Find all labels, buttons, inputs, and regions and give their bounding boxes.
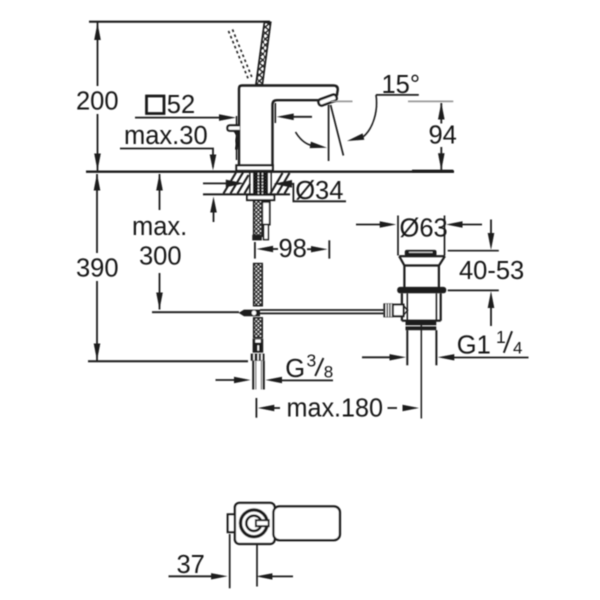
leader underline of dim 37: [169, 575, 213, 577]
tailpipe coupling band 2 (dark): [406, 326, 437, 330]
svg-text:300: 300: [139, 243, 182, 271]
leader line of dim 52 right: [292, 116, 312, 118]
dimension 200 vertical line lower segment: [97, 114, 99, 172]
drain centerline: [420, 321, 422, 419]
leader line of dim 52 left: [135, 117, 222, 119]
svg-text:max.: max.: [132, 213, 187, 241]
arrowhead left of G1 1/4: [438, 354, 455, 360]
left extension line of dim 52: [236, 116, 238, 160]
svg-text:390: 390: [76, 255, 119, 283]
top view: pop-up knob tab: [228, 514, 237, 532]
svg-text:94: 94: [429, 122, 457, 150]
deck hatching left patch: [224, 173, 251, 194]
lever phantom tilted position second stroke: [233, 30, 253, 78]
svg-text:Ø63: Ø63: [400, 215, 448, 243]
counter extension line under dim 94: [412, 170, 453, 172]
leader of G1 1/4 left: [362, 356, 392, 358]
svg-text:G1: G1: [457, 332, 491, 360]
ferrule white slot: [257, 345, 259, 350]
dimension max.300 vertical line upper segment: [159, 174, 161, 210]
arrowhead down of dim 200: [94, 154, 101, 171]
leader underline of G3/8 label: [281, 379, 334, 381]
knob white ridge 3: [391, 304, 392, 317]
dimension 390 vertical line lower segment: [96, 281, 98, 361]
hose ferrule (dark): [253, 339, 264, 353]
G3/8 tube inner line 1: [255, 361, 257, 390]
top view: faucet body square: [235, 503, 275, 544]
deck bottom line: [203, 193, 290, 195]
base plate under faucet body: [236, 165, 272, 170]
tailpipe left wall: [406, 330, 408, 365]
drain plug black lip: [405, 250, 437, 256]
pop-up rod squiggle going down: [236, 132, 238, 150]
arrowhead of 15 deg arc: [347, 133, 364, 141]
arrowhead up of dim 94: [438, 103, 445, 120]
aerator at spout end (15 deg): [318, 94, 338, 106]
svg-text:37: 37: [177, 551, 205, 579]
arrowhead left of dim 37: [256, 573, 273, 579]
svg-text:G: G: [285, 355, 305, 383]
drain body inner wall lines: [407, 293, 436, 321]
svg-text:200: 200: [76, 88, 119, 116]
horizontal rod right part lower line: [260, 312, 384, 314]
svg-text:Ø34: Ø34: [295, 177, 343, 205]
knob white ridge 2: [388, 304, 389, 317]
faucet body and spout outline: [239, 86, 338, 166]
shank white stripe 2: [261, 173, 263, 194]
small swivel arc on left: [296, 132, 311, 145]
square symbol of label square-52: [147, 96, 165, 114]
arrowhead right of dim 98: [311, 246, 328, 252]
flexible hose upper segment: [254, 200, 263, 236]
fraction slash of 1/4: [504, 331, 512, 353]
knob white ridge 1: [385, 304, 386, 317]
deck hatching right patch: [271, 173, 291, 194]
pop-up rod knob tab on left of body: [227, 125, 239, 130]
arrowhead up of dim max.300: [156, 174, 163, 191]
ferrule white notch: [255, 340, 260, 343]
arrowhead right of dim 34: [226, 180, 244, 188]
hole edge right: [270, 172, 272, 194]
leader underline of max.30: [120, 149, 213, 168]
pop-up rod behind body (dark): [234, 131, 240, 135]
extension line right of dim 37: [256, 545, 258, 587]
arrowhead right of G1 1/4: [390, 354, 407, 360]
chevron of rod tip in body: [404, 306, 408, 315]
leader of dim 63 right: [461, 224, 482, 226]
top view: lever slot: [256, 520, 269, 526]
tailpipe coupling band 1 (dark): [406, 322, 437, 326]
white slit in plug lip: [409, 251, 433, 253]
svg-text:8: 8: [324, 363, 333, 382]
leader line of dim 34 left: [203, 182, 228, 184]
arrowhead right of dim max.180: [403, 405, 420, 411]
top view: lever cap inner circle: [246, 516, 261, 531]
arrowhead down of max.30 at counter top: [210, 155, 217, 171]
leader underline of G1 1/4 label: [453, 357, 529, 359]
arrowhead down of dim 94: [438, 153, 445, 170]
pop-up rod guide tube: [262, 202, 269, 225]
wire: top extension line at lever tip level: [89, 21, 270, 23]
rod coupling at hose (dark bullet): [239, 310, 260, 317]
dimension max.300 vertical line lower segment: [159, 273, 161, 310]
dimension 200 vertical line upper segment: [97, 22, 99, 86]
dim 40-53 vertical line lower segment: [490, 305, 492, 326]
arrowhead up of dim 40-53: [488, 291, 495, 308]
arrowhead right of dim 52: [219, 114, 236, 121]
tick right of dim 98: [328, 240, 330, 258]
hole edge left: [249, 172, 251, 194]
leader of dim 98 left: [271, 248, 278, 250]
white dot in rod coupling: [252, 311, 257, 316]
extension line at flange top plane: [448, 250, 499, 252]
G3/8 tube right wall: [263, 361, 265, 390]
arrowhead down of dim 40-53: [488, 233, 495, 250]
leader of dim 37 right: [271, 575, 294, 577]
svg-text:max.180: max.180: [287, 395, 384, 423]
arrowhead right of dim 37: [211, 573, 228, 579]
arrowhead left of dim 34: [274, 180, 292, 188]
right extension line of dim 63: [444, 216, 446, 256]
rod connector block: [393, 305, 404, 317]
tilted outlet axis line: [331, 105, 344, 156]
nut white stripe 1: [253, 354, 254, 360]
gray extension line at outlet level left part: [331, 100, 353, 102]
svg-text:4: 4: [513, 339, 522, 358]
arrowhead left of dim 63: [446, 221, 463, 227]
arc from 15 deg label to tilted axis: [363, 95, 376, 137]
arrowhead up of dim 390: [94, 174, 101, 191]
arrowhead up at deck bottom (max.30): [210, 197, 217, 213]
lever in upright position (crosshatched): [256, 22, 271, 84]
connection nut (dark): [251, 354, 265, 361]
nut white stripe 2: [257, 354, 258, 360]
top view: lever cap outer circle: [241, 510, 268, 537]
drain washer black band: [397, 287, 446, 293]
leader of dim 98 right: [307, 248, 314, 250]
flexible hose middle segment: [254, 264, 263, 306]
drain body below washer: [402, 293, 441, 321]
svg-text:52: 52: [167, 91, 195, 119]
arrowhead right of dim 63: [380, 221, 397, 227]
horizontal rod right part upper line: [260, 309, 384, 311]
dim 94 vertical line lower segment: [440, 147, 442, 170]
G3/8 tube left wall: [252, 361, 254, 390]
arrowhead down of dim 390: [94, 344, 101, 361]
tailpipe right wall: [435, 330, 437, 365]
hose end cap (dark): [252, 235, 261, 241]
arrowhead up of dim 200: [94, 23, 101, 40]
gray extension line at outlet level right part: [408, 100, 453, 102]
svg-text:40-53: 40-53: [459, 257, 524, 285]
tick left of dim max.180: [255, 398, 257, 418]
arrowhead left of dim max.180: [258, 405, 275, 411]
stem of deck-bottom arrow: [213, 212, 215, 222]
extension line left of dim 37: [229, 534, 231, 588]
dim 94 vertical line upper segment: [440, 103, 442, 124]
leader of max.180 left: [272, 407, 280, 409]
arrowhead left of dim 98: [257, 246, 274, 252]
knurled adjuster knob (dark): [383, 303, 393, 317]
arrowhead left of G3/8: [266, 377, 283, 383]
left extension line of dim 63: [397, 216, 399, 256]
leader underline of 15 deg: [376, 94, 419, 96]
dim 40-53 vertical line upper segment: [490, 220, 492, 239]
leader of dim 63 left: [356, 224, 381, 226]
drain flange bowl: [399, 256, 445, 287]
G3/8 tube inner line 2: [260, 361, 262, 390]
fraction slash of 3/8: [315, 358, 323, 376]
lever phantom tilted position (dotted): [229, 31, 249, 80]
threaded shank through deck: [254, 172, 267, 196]
leader of max.180 right: [388, 407, 398, 409]
shank white stripe 1: [257, 173, 259, 194]
flexible hose lower segment: [254, 318, 263, 338]
counter top line: [86, 170, 454, 172]
right extension line of dim 52: [274, 103, 276, 123]
mounting washer under deck: [247, 195, 274, 200]
pop-up rod lower thin part: [264, 225, 269, 240]
svg-text:1: 1: [496, 327, 506, 347]
arrowhead of small swivel arc: [310, 142, 327, 149]
svg-text:max.30: max.30: [124, 122, 208, 150]
dimension 390 vertical line upper segment: [96, 174, 98, 253]
top view: spout rectangle: [273, 506, 340, 540]
extension line at washer plane: [448, 289, 499, 291]
leader of dim 34 right with step down to label: [290, 184, 347, 202]
arrowhead down of dim max.300: [156, 293, 163, 310]
wire: bottom extension line of dim 390 (hose end plane): [88, 360, 248, 362]
leader of G3/8 left: [216, 379, 237, 381]
svg-text:3: 3: [307, 351, 317, 371]
arrowhead left of dim 52 (right side): [277, 114, 294, 121]
svg-text:98: 98: [279, 235, 307, 263]
nut white stripe 3: [261, 354, 262, 360]
tick left of dim 98: [254, 242, 256, 259]
arrowhead right of G3/8: [234, 377, 251, 383]
vertical outlet axis line: [328, 105, 330, 161]
horizontal pop-up operating rod left part: [152, 311, 239, 313]
